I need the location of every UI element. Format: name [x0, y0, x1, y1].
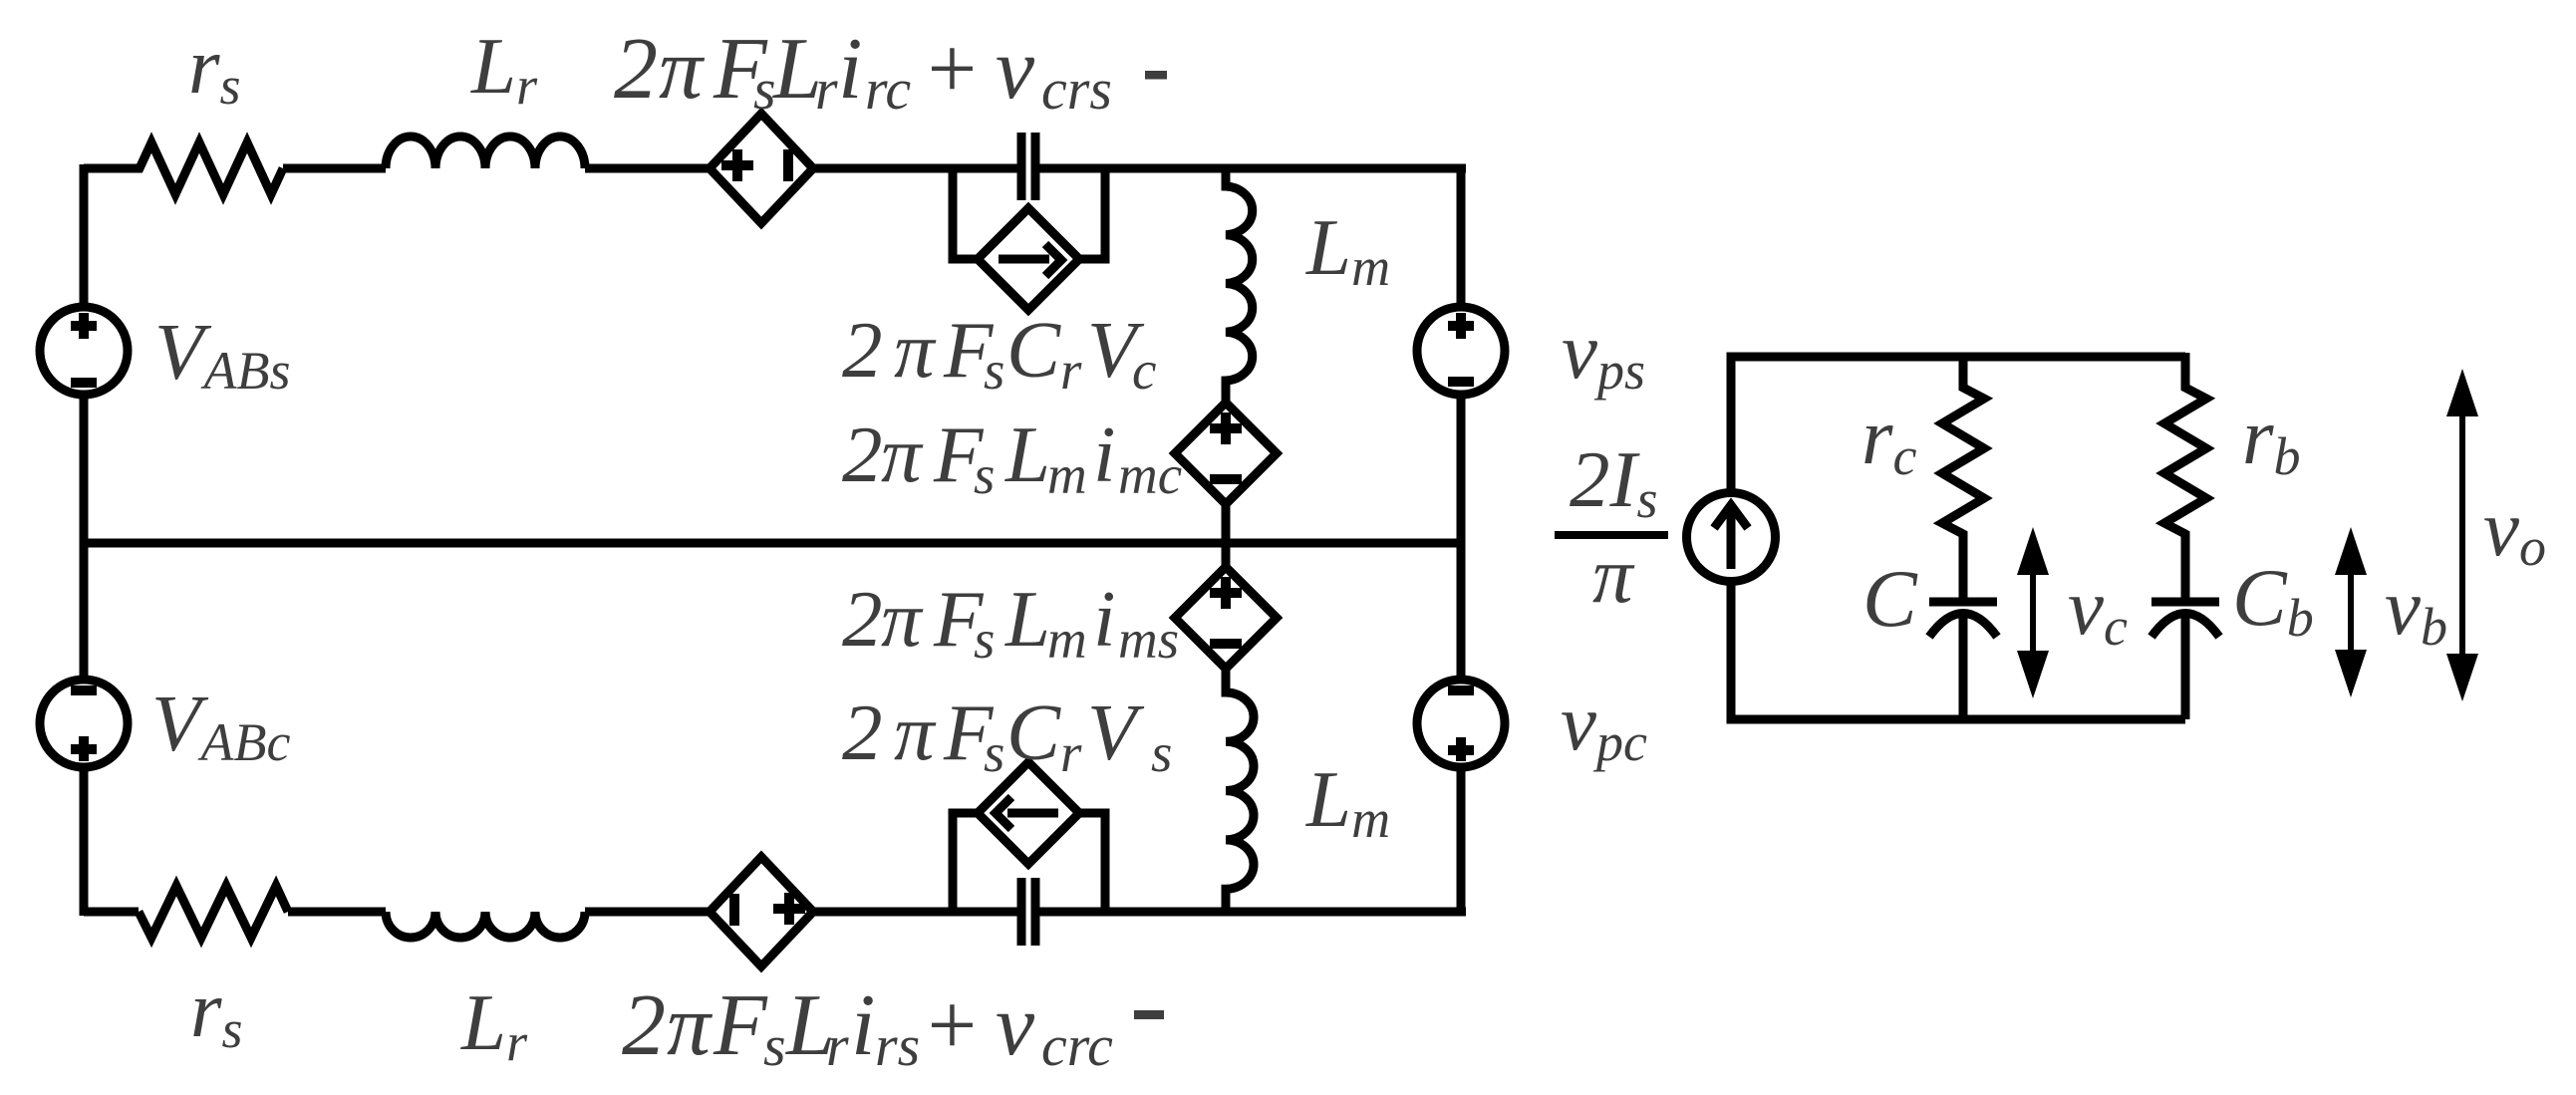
svg-text:r: r [1060, 722, 1082, 783]
svg-text:crc: crc [1041, 1013, 1113, 1078]
svg-text:L: L [1004, 574, 1050, 664]
dependent current source 2piFsCrVs (diamond) [978, 762, 1079, 864]
wire right circuit [1731, 357, 2185, 719]
svg-text:i: i [838, 21, 862, 118]
voltage source vps [1417, 307, 1505, 395]
dependent voltage source 2piFsLrirs (diamond) [710, 857, 813, 966]
inductor Lm top [1226, 168, 1253, 403]
wire bottom rail [84, 908, 1466, 917]
svg-text:π: π [881, 574, 924, 664]
wire left vertical [80, 164, 89, 916]
dependent voltage source 2piFsLrirc (diamond) [710, 114, 813, 223]
svg-text:2: 2 [614, 21, 658, 118]
arrow vb [2348, 558, 2354, 668]
svg-text:crs: crs [1041, 57, 1112, 122]
wire parallel branch bottom [953, 813, 1105, 912]
capacitor C [1929, 598, 1997, 607]
svg-text:C: C [1006, 305, 1061, 395]
svg-text:s: s [974, 609, 995, 670]
svg-text:ms: ms [1118, 609, 1179, 670]
svg-text:2: 2 [842, 687, 883, 777]
svg-text:c: c [1132, 340, 1156, 401]
arrow vc [2030, 558, 2036, 670]
svg-text:r: r [1060, 340, 1082, 401]
svg-text:C: C [1862, 553, 1918, 644]
svg-text:+: + [922, 21, 981, 118]
svg-text:π: π [659, 21, 706, 118]
svg-text:π: π [881, 410, 924, 499]
svg-text:mc: mc [1118, 444, 1182, 505]
svg-text:s: s [974, 444, 995, 505]
svg-text:m: m [1047, 609, 1087, 670]
svg-text:i: i [1093, 574, 1116, 664]
svg-text:2: 2 [842, 574, 883, 664]
arrow vo [2459, 399, 2465, 672]
svg-text:i: i [851, 977, 875, 1074]
svg-text:r: r [826, 1013, 849, 1078]
inductor Lm bottom [1226, 669, 1254, 912]
voltage source VABc [40, 680, 128, 767]
wire middle rail [84, 539, 1465, 548]
inductor Lr bottom [386, 912, 585, 938]
dependent current source 2piFsCrVc (diamond) [978, 208, 1079, 310]
resistor rs top [84, 142, 283, 194]
svg-text:s: s [763, 1013, 786, 1078]
svg-text:2: 2 [842, 305, 883, 395]
capacitor Crc (series, bottom) [1021, 878, 1035, 946]
svg-text:π: π [894, 687, 937, 777]
svg-text:F: F [713, 977, 768, 1074]
svg-text:π: π [894, 305, 937, 395]
label 2Is over pi fraction [1555, 531, 1668, 539]
current source 2Is/pi [1687, 493, 1776, 582]
svg-text:i: i [1093, 410, 1116, 499]
svg-text:C: C [1006, 687, 1061, 777]
svg-text:π: π [667, 977, 714, 1074]
wire parallel branch top [953, 168, 1105, 259]
capacitor Cb [2151, 598, 2219, 607]
svg-text:m: m [1047, 444, 1087, 505]
svg-text:+: + [922, 977, 981, 1074]
wire right vertical [1457, 164, 1466, 916]
svg-text:v: v [996, 977, 1035, 1074]
svg-text:r: r [815, 57, 838, 122]
svg-text:s: s [1151, 722, 1172, 783]
voltage source VABs [40, 307, 128, 395]
svg-text:π: π [1592, 530, 1635, 620]
svg-text:2: 2 [622, 977, 666, 1074]
svg-text:v: v [996, 21, 1035, 118]
wire top rail [84, 164, 1466, 173]
svg-text:s: s [984, 722, 1004, 783]
dependent voltage source 2piFsLmims (diamond) [1175, 543, 1277, 669]
resistor rs bottom [139, 886, 288, 938]
svg-text:2: 2 [842, 410, 883, 499]
voltage source vpc [1417, 680, 1505, 767]
svg-text:rs: rs [875, 1013, 920, 1078]
svg-text:V: V [1087, 687, 1145, 777]
capacitor Crs (series, top) [1021, 133, 1035, 200]
resistor rb [2164, 353, 2206, 598]
svg-text:s: s [984, 340, 1004, 401]
svg-text:rc: rc [865, 57, 911, 122]
resistor rc [1942, 353, 1984, 598]
dependent voltage source 2piFsLmimc (diamond) [1175, 403, 1277, 504]
inductor Lr top [386, 137, 585, 168]
svg-text:L: L [1004, 410, 1050, 499]
